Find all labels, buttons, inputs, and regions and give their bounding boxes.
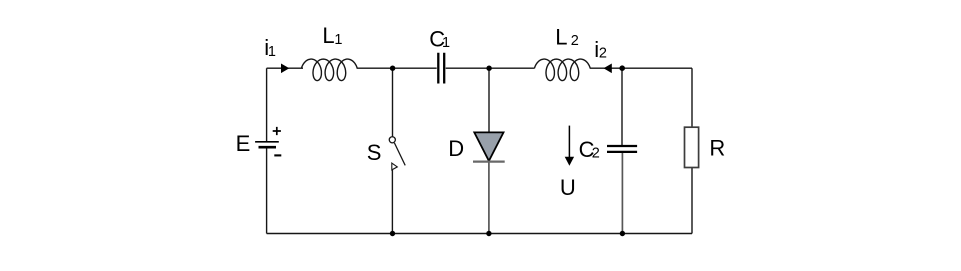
svg-text:E: E bbox=[236, 131, 251, 156]
wire right rail bbox=[691, 68, 693, 233]
node dot top diode bbox=[486, 66, 491, 71]
wire diode branch bottom bbox=[488, 162, 490, 234]
wire switch branch top bbox=[392, 68, 394, 137]
current arrow i2 bbox=[604, 64, 612, 74]
capacitor C2 plates bbox=[607, 146, 637, 152]
wire diode branch top bbox=[488, 68, 490, 132]
wire left rail bbox=[266, 68, 268, 233]
battery plus sign bbox=[273, 127, 281, 135]
svg-text:U: U bbox=[560, 175, 576, 200]
capacitor C1 plates bbox=[438, 53, 444, 84]
inductor L1 bbox=[302, 59, 358, 81]
node dot bottom C2 bbox=[620, 231, 625, 236]
diode D triangle bbox=[474, 132, 503, 161]
svg-text:1: 1 bbox=[442, 35, 450, 51]
svg-text:S: S bbox=[367, 140, 382, 165]
node dot top C2 bbox=[619, 65, 625, 71]
svg-text:1: 1 bbox=[334, 32, 342, 48]
switch S blade bbox=[394, 143, 405, 166]
svg-text:D: D bbox=[448, 136, 464, 161]
voltage arrow U bbox=[568, 126, 570, 159]
svg-text:L: L bbox=[322, 23, 334, 48]
wire top rail bbox=[267, 67, 692, 69]
node dot bottom diode bbox=[486, 231, 491, 236]
svg-text:1: 1 bbox=[268, 44, 276, 60]
wire C2 branch bottom bbox=[621, 153, 623, 234]
wire switch branch bottom bbox=[391, 170, 393, 234]
wire bottom rail bbox=[267, 233, 692, 235]
svg-text:2: 2 bbox=[592, 146, 600, 162]
switch S contact triangle bbox=[392, 163, 398, 170]
battery minus sign bbox=[274, 154, 281, 156]
inductor L2 bbox=[535, 59, 591, 81]
node dot top switch bbox=[390, 66, 395, 71]
svg-text:L: L bbox=[555, 24, 567, 49]
diode D cathode bar bbox=[473, 161, 505, 163]
resistor R body bbox=[685, 127, 699, 167]
svg-text:2: 2 bbox=[599, 45, 607, 61]
svg-text:2: 2 bbox=[571, 33, 579, 49]
current arrow i1 bbox=[281, 64, 289, 74]
node dot bottom switch bbox=[390, 231, 395, 236]
svg-text:R: R bbox=[709, 136, 725, 161]
wire C2 branch top bbox=[621, 68, 623, 145]
switch S circle bbox=[389, 137, 395, 143]
battery E plates bbox=[255, 141, 279, 143]
